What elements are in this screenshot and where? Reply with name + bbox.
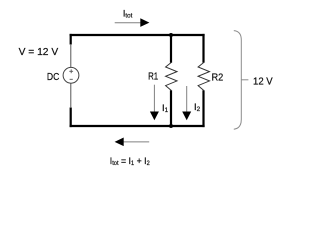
svg-text:Itot = I1 + I2: Itot = I1 + I2 bbox=[110, 156, 151, 167]
svg-text:I1: I1 bbox=[162, 103, 169, 114]
svg-text:R2: R2 bbox=[212, 72, 224, 84]
svg-text:R1: R1 bbox=[148, 71, 158, 83]
svg-text:I2: I2 bbox=[194, 102, 201, 113]
svg-text:Itot: Itot bbox=[123, 9, 133, 20]
svg-text:DC: DC bbox=[47, 71, 60, 83]
svg-text:12 V: 12 V bbox=[253, 76, 273, 88]
svg-text:V = 12 V: V = 12 V bbox=[19, 47, 59, 58]
